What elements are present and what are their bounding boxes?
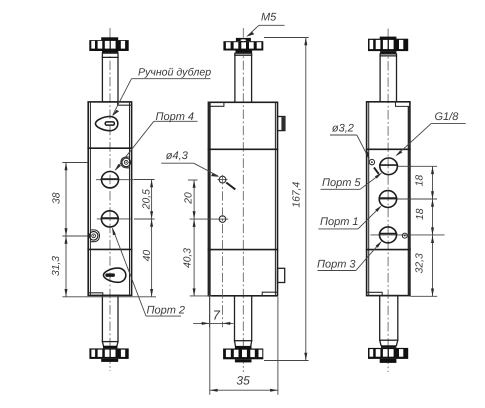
svg-text:18: 18 xyxy=(415,208,426,220)
dim 38 / 31,3 column xyxy=(62,163,156,297)
label Порт 1 xyxy=(318,205,382,229)
stem bottom (middle view) xyxy=(235,296,252,349)
small circle A with boss (right wall) xyxy=(121,157,131,168)
svg-text:М5: М5 xyxy=(261,11,277,23)
small circle right of ellipse 3 xyxy=(402,233,407,238)
knob bottom (middle view) xyxy=(223,349,263,363)
body (middle view) xyxy=(208,102,285,295)
port ellipse 2 (right view) xyxy=(379,191,437,208)
svg-text:Порт 1: Порт 1 xyxy=(320,216,359,228)
bottom-right step xyxy=(262,292,277,295)
dim 20,5 / 40 column xyxy=(134,180,155,297)
crosshair hole 2 xyxy=(190,216,229,223)
dim 18 / 18 / 32,3 column xyxy=(411,166,438,296)
bottom-left step xyxy=(88,293,102,295)
port ellipse 3 (right view) xyxy=(371,227,445,243)
small hole d3,2 xyxy=(369,159,374,164)
centerline left view xyxy=(109,28,111,371)
svg-text:Порт 3: Порт 3 xyxy=(317,258,356,270)
body (right view) xyxy=(367,102,410,296)
label d3,2 xyxy=(330,122,379,174)
svg-text:32,3: 32,3 xyxy=(415,253,426,273)
centerline middle view xyxy=(242,28,244,372)
stem bottom (left view) xyxy=(102,295,118,348)
dim 20 / 40,3 column xyxy=(188,180,212,296)
svg-text:167,4: 167,4 xyxy=(292,182,303,208)
bottom-left step xyxy=(367,292,382,295)
knob top (left view) xyxy=(89,37,128,53)
port ellipse 2 (left view) xyxy=(97,211,131,227)
svg-text:Порт 5: Порт 5 xyxy=(322,177,361,189)
dim 7 xyxy=(193,296,233,327)
top-left step xyxy=(209,103,224,107)
stem top (right view) xyxy=(380,54,396,102)
dim 35 xyxy=(210,297,278,395)
section division lines xyxy=(88,147,131,149)
knob bottom (right view) xyxy=(368,348,408,363)
vertical axis through holes xyxy=(222,175,224,327)
knob top (middle view) xyxy=(223,38,263,53)
label: Порт 4 xyxy=(115,111,198,171)
label Порт 5 xyxy=(321,173,383,190)
body (left view) xyxy=(88,102,131,296)
label M5 xyxy=(246,11,285,36)
small circle B with boss (left wall) xyxy=(89,230,99,242)
label d4,3 xyxy=(161,150,235,190)
centerline right view xyxy=(387,29,389,373)
svg-text:18: 18 xyxy=(415,175,426,187)
label Порт 3 xyxy=(317,241,382,271)
svg-text:ø4,3: ø4,3 xyxy=(166,150,189,162)
svg-text:31,3: 31,3 xyxy=(51,256,62,276)
svg-text:Ручной дублер: Ручной дублер xyxy=(138,67,211,79)
manual override port (teardrop 1) xyxy=(95,117,117,131)
knob bottom (left view) xyxy=(89,348,128,362)
svg-text:40,3: 40,3 xyxy=(183,248,194,268)
right tab 2 xyxy=(278,268,285,282)
svg-text:40: 40 xyxy=(142,250,153,262)
right tab 1 xyxy=(278,117,285,131)
svg-text:7: 7 xyxy=(213,308,221,323)
stem bottom (right view) xyxy=(380,296,398,348)
knob top (right view) xyxy=(368,37,408,54)
svg-text:20: 20 xyxy=(183,192,194,205)
dim 167,4 column xyxy=(264,38,309,361)
svg-text:Порт 2: Порт 2 xyxy=(147,305,186,317)
division lines xyxy=(208,148,277,150)
svg-text:ø3,2: ø3,2 xyxy=(332,122,354,134)
svg-text:38: 38 xyxy=(52,192,63,204)
label G1/8 xyxy=(395,111,465,156)
svg-text:G1/8: G1/8 xyxy=(435,111,460,123)
svg-text:35: 35 xyxy=(236,373,250,387)
stem top (middle view) xyxy=(235,53,252,102)
label: Порт 2 xyxy=(112,227,185,316)
crosshair hole 1 (d4,3) xyxy=(218,176,228,183)
teardrop 2 (left view bottom) xyxy=(103,268,125,282)
port ellipse 1 (right view) xyxy=(380,158,412,175)
division lines xyxy=(367,148,410,150)
top-right step xyxy=(396,102,410,106)
top-right step xyxy=(118,102,132,105)
svg-text:20,5: 20,5 xyxy=(141,189,152,210)
label: Ручной дублер xyxy=(112,67,211,117)
stem top (left view) xyxy=(102,53,118,102)
port ellipse 1 (left view) xyxy=(96,172,134,188)
